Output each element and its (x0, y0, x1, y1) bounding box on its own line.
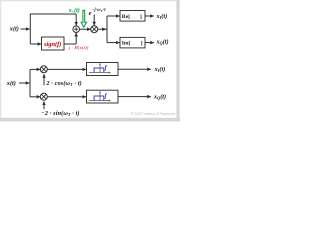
svg-text:x+(t): x+(t) (68, 7, 80, 14)
svg-text:2 · cos(ωT · t): 2 · cos(ωT · t) (45, 80, 82, 87)
svg-text:...: ... (131, 14, 135, 19)
svg-text:xQ(t): xQ(t) (156, 38, 169, 45)
svg-text:]: ] (140, 14, 142, 20)
svg-text:xI(t): xI(t) (154, 66, 166, 73)
svg-text:−2 · sin(ωT · t): −2 · sin(ωT · t) (41, 110, 80, 117)
svg-text:xI(t): xI(t) (156, 13, 168, 20)
svg-text:xQ(t): xQ(t) (153, 93, 166, 100)
svg-text:© 2007 www.LNTwww.de: © 2007 www.LNTwww.de (131, 111, 177, 116)
svg-text:x(t): x(t) (9, 26, 19, 33)
svg-text:x(t): x(t) (6, 80, 16, 87)
svg-text:sign(f): sign(f) (43, 41, 61, 48)
svg-text:]: ] (141, 41, 143, 47)
svg-text:Re[: Re[ (122, 14, 130, 20)
svg-text:...: ... (130, 40, 134, 45)
svg-text:Im[: Im[ (122, 41, 131, 47)
svg-text:j · H[x(t)]: j · H[x(t)] (68, 45, 89, 50)
